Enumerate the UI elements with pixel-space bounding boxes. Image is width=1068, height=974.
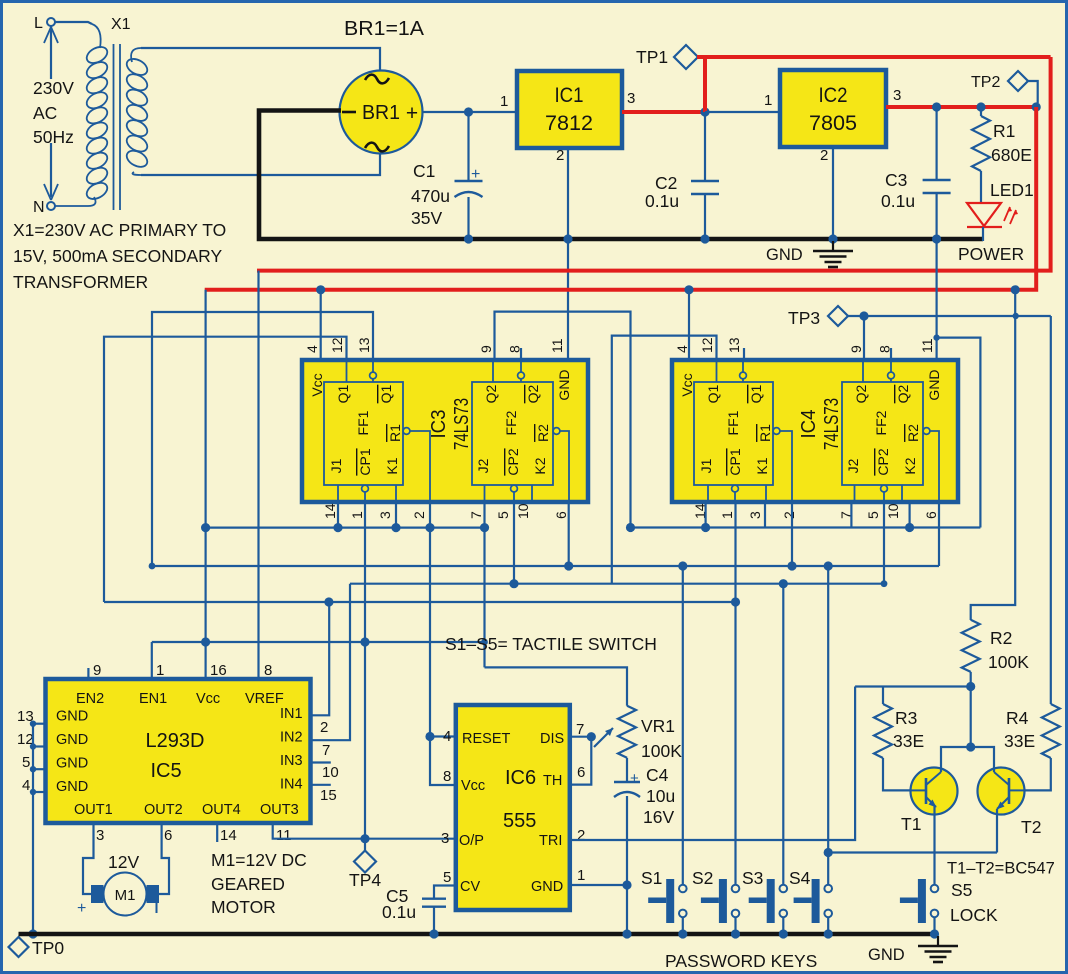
svg-text:13: 13 [356, 337, 372, 353]
svg-text:IN2: IN2 [280, 730, 303, 746]
emitter row to S4 [828, 851, 997, 853]
svg-text:Vcc: Vcc [309, 373, 325, 396]
svg-text:BR1=1A: BR1=1A [344, 18, 425, 40]
svg-text:0.1u: 0.1u [881, 191, 915, 211]
svg-text:3: 3 [893, 87, 901, 104]
svg-text:T2: T2 [1021, 817, 1041, 837]
svg-text:5: 5 [443, 869, 451, 886]
svg-text:R1: R1 [757, 424, 773, 442]
IC4 pin 5 CP2 bubble [881, 485, 888, 492]
svg-text:VR1: VR1 [641, 716, 675, 736]
svg-text:J2: J2 [845, 458, 861, 473]
svg-text:J1: J1 [328, 458, 344, 473]
svg-text:9: 9 [848, 345, 864, 353]
svg-text:R2: R2 [905, 424, 921, 442]
IC4 pin 8 stub [890, 348, 892, 360]
wire 5V to R2 [971, 290, 1016, 620]
svg-text:VREF: VREF [245, 691, 284, 707]
svg-text:AC: AC [33, 103, 57, 123]
svg-text:FF2: FF2 [873, 410, 889, 435]
svg-text:1: 1 [500, 93, 508, 110]
svg-text:TP4: TP4 [349, 870, 381, 890]
svg-text:PASSWORD KEYS: PASSWORD KEYS [665, 951, 817, 971]
svg-text:CV: CV [460, 879, 480, 895]
row4 CP2 row [350, 583, 884, 585]
svg-text:Q2: Q2 [525, 384, 541, 403]
svg-text:L293D: L293D [146, 730, 205, 752]
svg-text:K1: K1 [384, 457, 400, 474]
red vertical V2 12V down [257, 57, 1051, 271]
svg-text:33E: 33E [893, 731, 924, 751]
svg-text:FF1: FF1 [355, 410, 371, 435]
IC3 pin 13 Q1bar bubble [372, 360, 374, 372]
IC4 pin 14 J1 [707, 485, 709, 502]
svg-text:GND: GND [56, 779, 88, 795]
svg-text:TRI: TRI [539, 833, 562, 849]
svg-text:3: 3 [627, 90, 635, 107]
555 TRI wire to transistor node [571, 687, 856, 841]
row3 Q1 clock row [104, 601, 736, 603]
svg-text:OUT1: OUT1 [74, 802, 113, 818]
svg-text:100K: 100K [641, 741, 682, 761]
svg-text:Vcc: Vcc [461, 778, 485, 794]
IC5 OUT3 to 555 output [273, 822, 456, 839]
svg-text:3: 3 [441, 830, 449, 847]
svg-text:50Hz: 50Hz [33, 127, 74, 147]
IC3 pin 9 Q2 [492, 360, 494, 382]
svg-text:6: 6 [164, 827, 172, 844]
svg-text:10u: 10u [646, 786, 675, 806]
svg-text:15: 15 [320, 787, 337, 804]
capacitor C3 [935, 107, 937, 180]
svg-text:Vcc: Vcc [196, 691, 220, 707]
switch S3 [767, 879, 775, 923]
svg-text:MOTOR: MOTOR [211, 897, 276, 917]
IC1 pin3 red wire [622, 110, 707, 114]
T1 collector wire [941, 747, 971, 772]
IC3 pin 7 J2 [484, 485, 486, 502]
svg-text:+: + [630, 770, 639, 787]
svg-text:230V: 230V [33, 78, 74, 98]
IC3 pin 3 K1 [395, 485, 397, 502]
IC3 pin13 wire left [152, 312, 373, 566]
svg-text:BR1: BR1 [362, 102, 400, 124]
svg-text:8: 8 [443, 768, 451, 785]
svg-text:R1: R1 [993, 121, 1015, 141]
svg-text:EN2: EN2 [76, 691, 104, 707]
svg-text:4: 4 [443, 728, 451, 745]
svg-text:OUT2: OUT2 [144, 802, 183, 818]
svg-text:IC4: IC4 [798, 410, 820, 439]
wire to IC2 pin1 [705, 111, 780, 113]
IC4 pin 13 Q1bar bubble [742, 360, 744, 372]
IC5 EN2 stub pin9 [87, 668, 89, 681]
svg-text:8: 8 [264, 662, 272, 679]
svg-text:7: 7 [468, 511, 484, 519]
svg-text:DIS: DIS [540, 731, 564, 747]
capacitor C1 [467, 112, 469, 181]
switch S1 [666, 879, 674, 923]
IC3 R1bar bubble to pin 2 [403, 428, 410, 435]
svg-text:J2: J2 [475, 458, 491, 473]
svg-text:TH: TH [543, 773, 562, 789]
red vertical V1 5V down [205, 107, 1036, 290]
555 GND wire to C4 node [571, 884, 627, 886]
12V rail drop to IC5 VREF [257, 271, 259, 681]
IC3 pin 10 K2 [531, 485, 533, 502]
svg-text:IC3: IC3 [428, 410, 450, 439]
svg-text:LOCK: LOCK [950, 905, 998, 925]
regulator IC2 7805 [780, 70, 886, 147]
svg-text:S3: S3 [742, 868, 763, 888]
svg-text:POWER: POWER [958, 244, 1024, 264]
svg-text:TP1: TP1 [636, 47, 668, 67]
svg-text:2: 2 [556, 147, 564, 164]
svg-text:L: L [34, 15, 43, 32]
S1 line up to row2 [682, 566, 684, 885]
svg-text:12: 12 [699, 337, 715, 353]
svg-text:10: 10 [885, 503, 901, 519]
transformer X1 [44, 18, 150, 210]
svg-text:+: + [406, 102, 418, 125]
IC3 R2bar bubble to pin 6 [553, 428, 560, 435]
svg-text:4: 4 [304, 345, 320, 353]
IC IC6 555 timer [456, 705, 570, 910]
IC4 pin14 drop [704, 502, 706, 528]
IC3 pin12 wire left [104, 337, 347, 602]
motor M1 [83, 822, 94, 894]
svg-text:M1=12V DC: M1=12V DC [211, 850, 307, 870]
T1 emitter wire to S5 [933, 806, 935, 885]
black ground bus bottom [19, 932, 939, 937]
IC4 pin13 stub [743, 348, 745, 360]
svg-text:13: 13 [726, 337, 742, 353]
row2 Q1bar line [152, 565, 939, 567]
svg-text:TRANSFORMER: TRANSFORMER [13, 272, 148, 292]
svg-text:5: 5 [495, 511, 511, 519]
wire BR1 + to IC1 pin1 [423, 111, 517, 113]
svg-text:R3: R3 [895, 708, 917, 728]
IC5 IN2 to row4 [311, 584, 350, 741]
IC5 IN3 stub [311, 761, 331, 763]
svg-text:3: 3 [96, 827, 104, 844]
svg-text:Q2: Q2 [895, 384, 911, 403]
capacitor C4 [626, 758, 628, 782]
svg-text:GND: GND [56, 732, 88, 748]
IC5 OUT4 stub [216, 822, 218, 842]
svg-text:IN3: IN3 [280, 753, 303, 769]
IC3 pin 8 Q2bar bubble [520, 360, 522, 372]
IC3 pin14 drop [337, 502, 339, 528]
IC4 pin11 GND wire via C3 node [935, 239, 937, 360]
black AC/ground wire from BR1 minus [259, 111, 983, 240]
transistor T1 [911, 768, 958, 815]
svg-text:Q1: Q1 [378, 384, 394, 403]
IC IC5 L293D motor driver [46, 679, 311, 823]
svg-text:3: 3 [747, 511, 763, 519]
svg-text:6: 6 [577, 764, 585, 781]
svg-text:7: 7 [322, 742, 330, 759]
IC5 IN1 to row3 [311, 602, 329, 715]
ground symbol bottom right [937, 936, 939, 945]
IC3 pin 12 Q1 [346, 360, 348, 382]
svg-text:C4: C4 [646, 765, 669, 785]
IC4 R1bar bubble to pin 2 [773, 428, 780, 435]
svg-text:2: 2 [320, 719, 328, 736]
svg-text:0.1u: 0.1u [382, 902, 416, 922]
IC4 pin3 drop [764, 502, 766, 528]
IC4 pin 3 K1 [765, 485, 767, 502]
svg-text:S1: S1 [641, 868, 662, 888]
row6 VR1 feed row [485, 667, 628, 705]
svg-text:74LS73: 74LS73 [451, 398, 473, 450]
LED1 power indicator [967, 203, 1001, 226]
TP3 to IC4 pin9 and R4 line [848, 315, 1051, 317]
svg-text:5: 5 [865, 511, 881, 519]
svg-text:11: 11 [919, 338, 935, 353]
svg-text:C3: C3 [885, 170, 907, 190]
svg-text:GEARED: GEARED [211, 874, 285, 894]
svg-text:IN4: IN4 [280, 777, 303, 793]
555 TH tie to DIS [571, 737, 592, 785]
svg-text:2: 2 [577, 827, 585, 844]
svg-text:16V: 16V [643, 807, 674, 827]
svg-text:TP2: TP2 [971, 74, 1000, 91]
IC3 pin 8 stub [520, 348, 522, 360]
svg-text:EN1: EN1 [139, 691, 167, 707]
svg-text:R2: R2 [535, 424, 551, 442]
resistor R3 33E [882, 687, 884, 705]
resistor R4 33E [1042, 704, 1060, 758]
svg-text:7: 7 [576, 721, 584, 738]
svg-text:C2: C2 [655, 173, 677, 193]
svg-text:OUT3: OUT3 [260, 802, 299, 818]
svg-text:10: 10 [322, 764, 339, 781]
switch S4 [812, 879, 820, 923]
IC4 pin 10 K2 [901, 485, 903, 502]
IC IC4 74LS73 [672, 360, 958, 502]
svg-text:LED1: LED1 [990, 180, 1034, 200]
IC2 pin2 to ground [832, 147, 834, 239]
svg-text:Vcc: Vcc [679, 373, 695, 396]
IC4 pin10 drop [908, 502, 910, 528]
svg-text:+: + [471, 166, 480, 183]
svg-text:IC2: IC2 [819, 84, 848, 107]
switch S2 [719, 879, 727, 923]
IC3 FF1 box [324, 382, 403, 485]
svg-text:IC6: IC6 [505, 767, 536, 789]
svg-text:TP0: TP0 [32, 938, 64, 958]
svg-text:CP2: CP2 [875, 448, 891, 475]
row1-IC3 5V to J/K pins [206, 526, 485, 528]
regulator IC1 7812 [517, 71, 622, 148]
svg-text:10: 10 [515, 503, 531, 519]
S4 line up to row2 [827, 566, 829, 885]
svg-text:+: + [77, 900, 86, 917]
svg-text:GND: GND [556, 369, 572, 400]
IC3 pin2 reset line down to 555 [429, 502, 431, 737]
IC4 FF2 box [842, 382, 923, 485]
svg-text:1: 1 [577, 867, 585, 884]
svg-text:100K: 100K [988, 652, 1029, 672]
svg-text:S4: S4 [789, 868, 811, 888]
test point TP0 [9, 937, 29, 957]
svg-text:N: N [33, 199, 45, 216]
IC3 pin3 drop [395, 502, 397, 528]
svg-text:33E: 33E [1004, 731, 1035, 751]
svg-text:GND: GND [531, 879, 563, 895]
svg-text:J1: J1 [698, 458, 714, 473]
svg-text:K2: K2 [902, 457, 918, 474]
IC4 pin 8 Q2bar bubble [890, 360, 892, 372]
svg-text:6: 6 [553, 511, 569, 519]
row5 EN1 row [152, 641, 485, 643]
svg-text:T1: T1 [901, 814, 921, 834]
svg-text:1: 1 [719, 511, 735, 519]
svg-text:12V: 12V [108, 852, 139, 872]
svg-text:Q1: Q1 [748, 384, 764, 403]
svg-text:GND: GND [766, 246, 803, 264]
555 DIS wire to VR1 wiper [571, 736, 592, 738]
svg-text:9: 9 [478, 345, 494, 353]
IC4 FF1 box [694, 382, 773, 485]
IC3 FF2 box [472, 382, 553, 485]
svg-text:R4: R4 [1006, 708, 1029, 728]
IC4 pin4 Vcc to 5V rail [688, 290, 690, 360]
svg-text:1: 1 [349, 511, 365, 519]
svg-text:4: 4 [22, 777, 30, 794]
svg-text:S1–S5= TACTILE SWITCH: S1–S5= TACTILE SWITCH [445, 634, 657, 654]
resistor R2 100K [962, 620, 980, 672]
svg-text:GND: GND [56, 709, 88, 725]
IC2 pin3 red 5V wire [886, 105, 1036, 109]
capacitor C5 [434, 886, 456, 899]
svg-text:680E: 680E [991, 145, 1032, 165]
svg-text:1: 1 [156, 662, 164, 679]
svg-text:FF2: FF2 [503, 410, 519, 435]
svg-text:CP2: CP2 [505, 448, 521, 475]
row1-IC4 ground J/K row [631, 526, 981, 528]
S3 line up to CP2 row [782, 584, 784, 885]
T2 emitter wire [996, 809, 998, 853]
5V rail drop to row1 and IC5 Vcc [205, 290, 207, 681]
svg-text:S2: S2 [692, 868, 713, 888]
svg-text:5: 5 [22, 754, 30, 771]
T2 collector wire [971, 747, 994, 772]
svg-text:7805: 7805 [809, 112, 857, 135]
svg-text:2: 2 [781, 511, 797, 519]
svg-text:11: 11 [549, 338, 565, 353]
IC4 pin7 drop [850, 502, 852, 528]
svg-text:0.1u: 0.1u [645, 191, 679, 211]
svg-text:R1: R1 [387, 424, 403, 442]
transistor T2 (mirrored) [978, 768, 1025, 815]
svg-text:GND: GND [926, 369, 942, 400]
svg-text:TP3: TP3 [788, 308, 820, 328]
svg-text:15V, 500mA SECONDARY: 15V, 500mA SECONDARY [13, 246, 222, 266]
svg-text:74LS73: 74LS73 [821, 398, 843, 450]
node line R2/R3/TRI [855, 685, 971, 687]
IC3 pin9 wire right [495, 312, 631, 528]
svg-text:C1: C1 [413, 161, 435, 181]
IC3 pin 14 J1 [337, 485, 339, 502]
resistor R1 680E [980, 107, 982, 116]
IC4 pin9 wire [863, 316, 865, 360]
switch S5 lock key [918, 879, 926, 923]
svg-text:R2: R2 [990, 628, 1012, 648]
ground symbol GND [832, 241, 834, 250]
wire secondary top to BR1 [141, 48, 380, 71]
svg-text:GND: GND [56, 756, 88, 772]
wire TP3 line down to R4 [1050, 316, 1052, 704]
IC4 pin 9 Q2 [862, 360, 864, 382]
svg-text:T1–T2=BC547: T1–T2=BC547 [947, 860, 1055, 878]
svg-text:470u: 470u [411, 186, 450, 206]
svg-text:M1: M1 [115, 887, 136, 904]
IC4 pin12 wire left [612, 336, 717, 584]
IC4 pin6 drop [938, 502, 940, 566]
IC3 pin5 drop [513, 502, 515, 584]
IC5 GND pins left [33, 723, 46, 725]
IC4 R2bar bubble to pin 6 [923, 428, 930, 435]
svg-text:Q2: Q2 [483, 384, 499, 403]
svg-text:K2: K2 [532, 457, 548, 474]
IC4 pin2 drop [791, 502, 793, 566]
IC IC3 74LS73 [302, 360, 588, 502]
svg-text:2: 2 [411, 511, 427, 519]
svg-text:CP1: CP1 [357, 448, 373, 475]
branch to IC4 JK row [937, 338, 981, 528]
capacitor C2 [704, 112, 706, 181]
svg-text:555: 555 [503, 810, 536, 832]
svg-text:S5: S5 [951, 880, 972, 900]
svg-text:OUT4: OUT4 [202, 802, 241, 818]
svg-text:IC5: IC5 [150, 760, 181, 782]
svg-text:1: 1 [764, 92, 772, 109]
VR1 preset 100K [618, 706, 636, 758]
IC1 pin2 down to ground and IC3 pin11 [567, 148, 569, 360]
IC3 pin7 drop [483, 502, 485, 667]
IC3 pin4 Vcc to 5V rail [320, 290, 322, 360]
svg-text:7812: 7812 [545, 112, 593, 135]
IC3 pin6 drop [568, 502, 570, 566]
wire BR1 bottom to secondary [141, 153, 380, 175]
svg-text:K1: K1 [754, 457, 770, 474]
svg-text:IC1: IC1 [555, 84, 584, 107]
svg-text:Q1: Q1 [335, 384, 351, 403]
IC5 IN4 stub [311, 784, 331, 786]
svg-text:CP1: CP1 [727, 448, 743, 475]
IC4 pin 1 CP1 bubble [732, 485, 739, 492]
svg-text:Q1: Q1 [705, 384, 721, 403]
svg-text:14: 14 [220, 827, 237, 844]
IC4 pin1 line down to S2 [734, 502, 736, 885]
IC4 pin5 drop [883, 502, 885, 584]
IC3 pin 5 CP2 bubble [511, 485, 518, 492]
svg-text:6: 6 [923, 511, 939, 519]
svg-text:2: 2 [820, 147, 828, 164]
svg-text:35V: 35V [411, 208, 442, 228]
svg-text:12: 12 [329, 337, 345, 353]
svg-text:9: 9 [93, 662, 101, 679]
svg-text:X1=230V AC PRIMARY TO: X1=230V AC PRIMARY TO [13, 220, 226, 240]
svg-text:GND: GND [868, 946, 905, 964]
svg-text:16: 16 [210, 662, 227, 679]
IC3 pin 1 CP1 bubble [362, 485, 369, 492]
svg-text:RESET: RESET [462, 731, 510, 747]
svg-text:14: 14 [322, 503, 338, 519]
IC3 pin1 clock line down to 555 output row [364, 502, 366, 839]
